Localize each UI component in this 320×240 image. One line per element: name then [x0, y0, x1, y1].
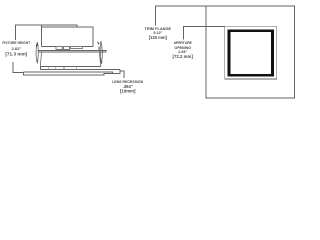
label: fixture height — [2, 41, 30, 56]
svg-text:FIXTURE HEIGHT: FIXTURE HEIGHT — [2, 41, 30, 45]
label: trim flange — [145, 26, 172, 40]
lens recession leader — [120, 71, 124, 78]
fixture height bottom leader — [13, 62, 23, 73]
connector block 2 — [63, 47, 69, 50]
aperture leader — [184, 26, 225, 39]
svg-text:[71.3 mm]: [71.3 mm] — [5, 51, 27, 56]
right spring tip — [101, 60, 102, 63]
left torsion spring — [36, 42, 38, 62]
svg-text:[10mm]: [10mm] — [120, 89, 136, 94]
left spring tip — [37, 60, 38, 63]
aperture opening thick square — [229, 31, 273, 75]
reflector left edge — [40, 52, 41, 67]
box lid line — [42, 26, 78, 28]
fixture height top leader — [16, 25, 42, 40]
svg-text:OPENING: OPENING — [174, 46, 191, 50]
bezel tick 1 — [48, 66, 50, 69]
left spring curl — [36, 43, 38, 46]
trim flange profile — [24, 70, 120, 75]
svg-text:[72.2 mm]: [72.2 mm] — [173, 54, 194, 59]
driver box — [42, 25, 94, 47]
reflector bottom — [40, 65, 101, 67]
right spring bracket — [98, 47, 100, 51]
inner thin square — [225, 26, 277, 79]
trim top line — [24, 72, 113, 74]
svg-text:TRIM FLANGE: TRIM FLANGE — [145, 26, 172, 31]
connector strip — [71, 47, 83, 49]
trim flange leader — [155, 6, 206, 26]
bezel tick 4 — [76, 66, 78, 69]
outer square trim flange — [206, 6, 295, 98]
mounting plate — [38, 50, 106, 52]
label: lens recession — [112, 80, 143, 93]
svg-text:2.81″: 2.81″ — [11, 46, 21, 51]
bezel tick 3 — [63, 66, 65, 69]
lens bezel band — [40, 66, 119, 69]
right torsion spring — [100, 41, 102, 63]
svg-text:[130 mm]: [130 mm] — [149, 35, 168, 40]
right spring curl — [98, 42, 99, 45]
svg-text:APERTURE: APERTURE — [174, 41, 193, 45]
label: aperture opening — [173, 41, 194, 59]
reflector right edge — [99, 52, 100, 67]
bezel tick 2 — [55, 66, 57, 69]
connector block 1 — [56, 47, 62, 50]
svg-text:2.84″: 2.84″ — [178, 50, 187, 54]
